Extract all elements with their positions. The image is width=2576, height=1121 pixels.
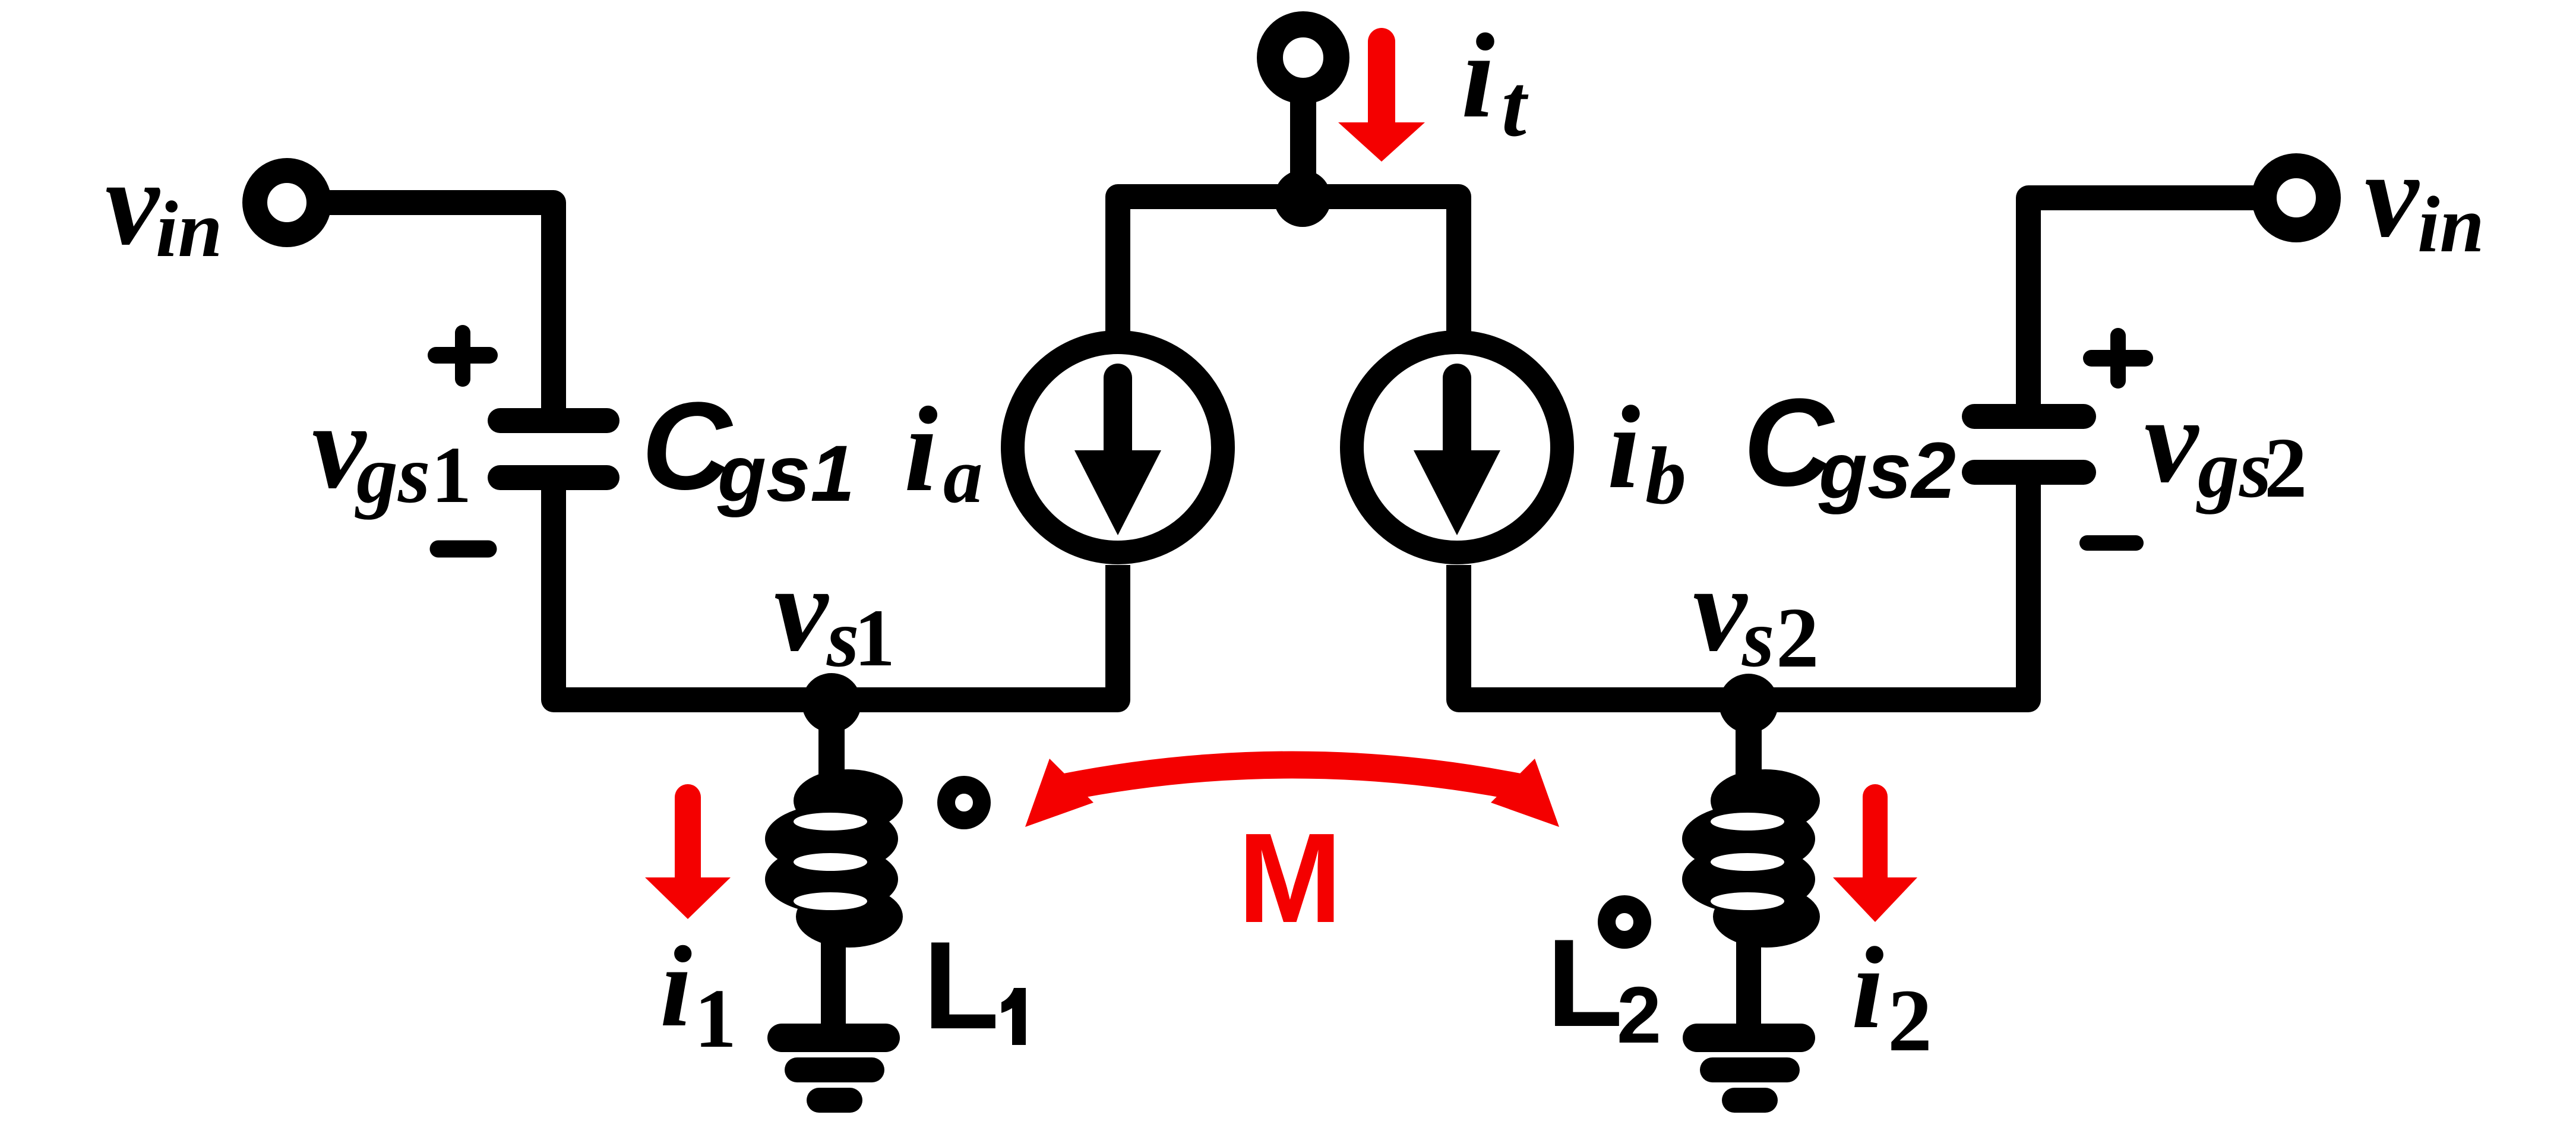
label M mutual inductance: [1238, 807, 1342, 949]
svg-text:v: v: [105, 135, 160, 270]
current source ib: [1352, 342, 1562, 552]
label L2: [1547, 913, 1661, 1060]
svg-text:v: v: [2144, 373, 2199, 508]
red arrow it: [1338, 42, 1425, 162]
svg-text:s: s: [1741, 592, 1774, 684]
svg-text:2: 2: [1617, 970, 1661, 1060]
label vgs2: [2144, 373, 2308, 516]
node vs1 junction dot: [802, 673, 861, 732]
svg-text:v: v: [2365, 128, 2420, 263]
ground L1: [782, 1038, 886, 1100]
minus sign vgs2: [2087, 535, 2136, 551]
label vin right: [2365, 128, 2485, 269]
svg-text:in: in: [2417, 181, 2485, 269]
capacitor Cgs1: [500, 421, 607, 478]
svg-text:1: 1: [694, 971, 737, 1065]
plus sign vgs2: [2091, 336, 2145, 381]
wire vs1 stub to L1: [818, 703, 845, 781]
wire Cgs2 top to vin-right terminal: [2028, 198, 2269, 415]
svg-text:v: v: [774, 542, 829, 677]
node it junction dot: [1274, 170, 1331, 227]
svg-text:1: 1: [854, 592, 895, 683]
svg-text:b: b: [1645, 430, 1686, 521]
svg-text:gs2: gs2: [1818, 427, 1956, 515]
inductor L1: [765, 769, 903, 948]
label vs2: [1693, 542, 1819, 686]
terminal vin right: [2264, 166, 2328, 230]
svg-text:1: 1: [431, 431, 472, 520]
red arrow i2: [1833, 797, 1917, 922]
node vs2 junction dot: [1719, 674, 1778, 733]
wire top terminal stub: [1290, 77, 1316, 202]
label i1: [660, 923, 737, 1065]
wire ia top to bus to ib top: [1118, 197, 1459, 331]
wire L2 bottom lead: [1736, 933, 1761, 1025]
svg-text:v: v: [1693, 542, 1748, 677]
label ia: [904, 382, 983, 519]
polarity dot L1: [946, 785, 982, 820]
label Cgs1: [641, 376, 855, 518]
svg-text:L: L: [923, 915, 999, 1055]
label Cgs2: [1743, 372, 1956, 515]
svg-text:a: a: [943, 431, 983, 519]
svg-text:i: i: [904, 382, 938, 517]
current source ia: [1013, 342, 1223, 552]
red mutual coupling arrow M: [1025, 759, 1559, 827]
svg-text:2: 2: [1776, 591, 1819, 686]
red arrow i1: [645, 797, 731, 919]
svg-text:t: t: [1502, 56, 1529, 155]
svg-text:2: 2: [1888, 971, 1932, 1070]
svg-text:i: i: [1851, 923, 1884, 1053]
plus sign vgs1: [436, 333, 489, 379]
svg-text:gs1: gs1: [717, 430, 855, 518]
svg-text:gs: gs: [355, 428, 430, 520]
label vgs1: [312, 379, 472, 520]
svg-text:L: L: [1547, 913, 1623, 1053]
wire vin-left to Cgs1 top: [315, 203, 554, 419]
terminal vin left: [255, 170, 319, 235]
label vs1: [774, 542, 895, 684]
label vin left: [105, 135, 223, 274]
svg-text:M: M: [1238, 807, 1342, 949]
label i2: [1851, 923, 1932, 1070]
inductor L2: [1682, 769, 1820, 948]
label ib: [1607, 382, 1686, 521]
svg-text:i: i: [1607, 382, 1641, 513]
svg-text:in: in: [156, 185, 223, 274]
wire vs2 stub to L2: [1736, 703, 1762, 781]
label it: [1461, 9, 1529, 155]
svg-text:gs: gs: [2196, 423, 2271, 515]
wire Cgs1 bottom to node vs1 to ia bottom: [554, 475, 1118, 700]
svg-text:i: i: [660, 923, 692, 1051]
label L1: [923, 915, 1026, 1055]
wire L1 bottom lead: [821, 933, 846, 1025]
svg-text:2: 2: [2264, 421, 2308, 516]
capacitor Cgs2: [1974, 416, 2084, 472]
svg-text:i: i: [1461, 9, 1495, 143]
ground L2: [1697, 1038, 1801, 1100]
polarity dot L2: [1607, 904, 1642, 940]
terminal it top: [1270, 24, 1336, 91]
minus sign vgs1: [438, 541, 488, 558]
wire ib bottom to node vs2 to Cgs2 bottom: [1459, 474, 2028, 700]
